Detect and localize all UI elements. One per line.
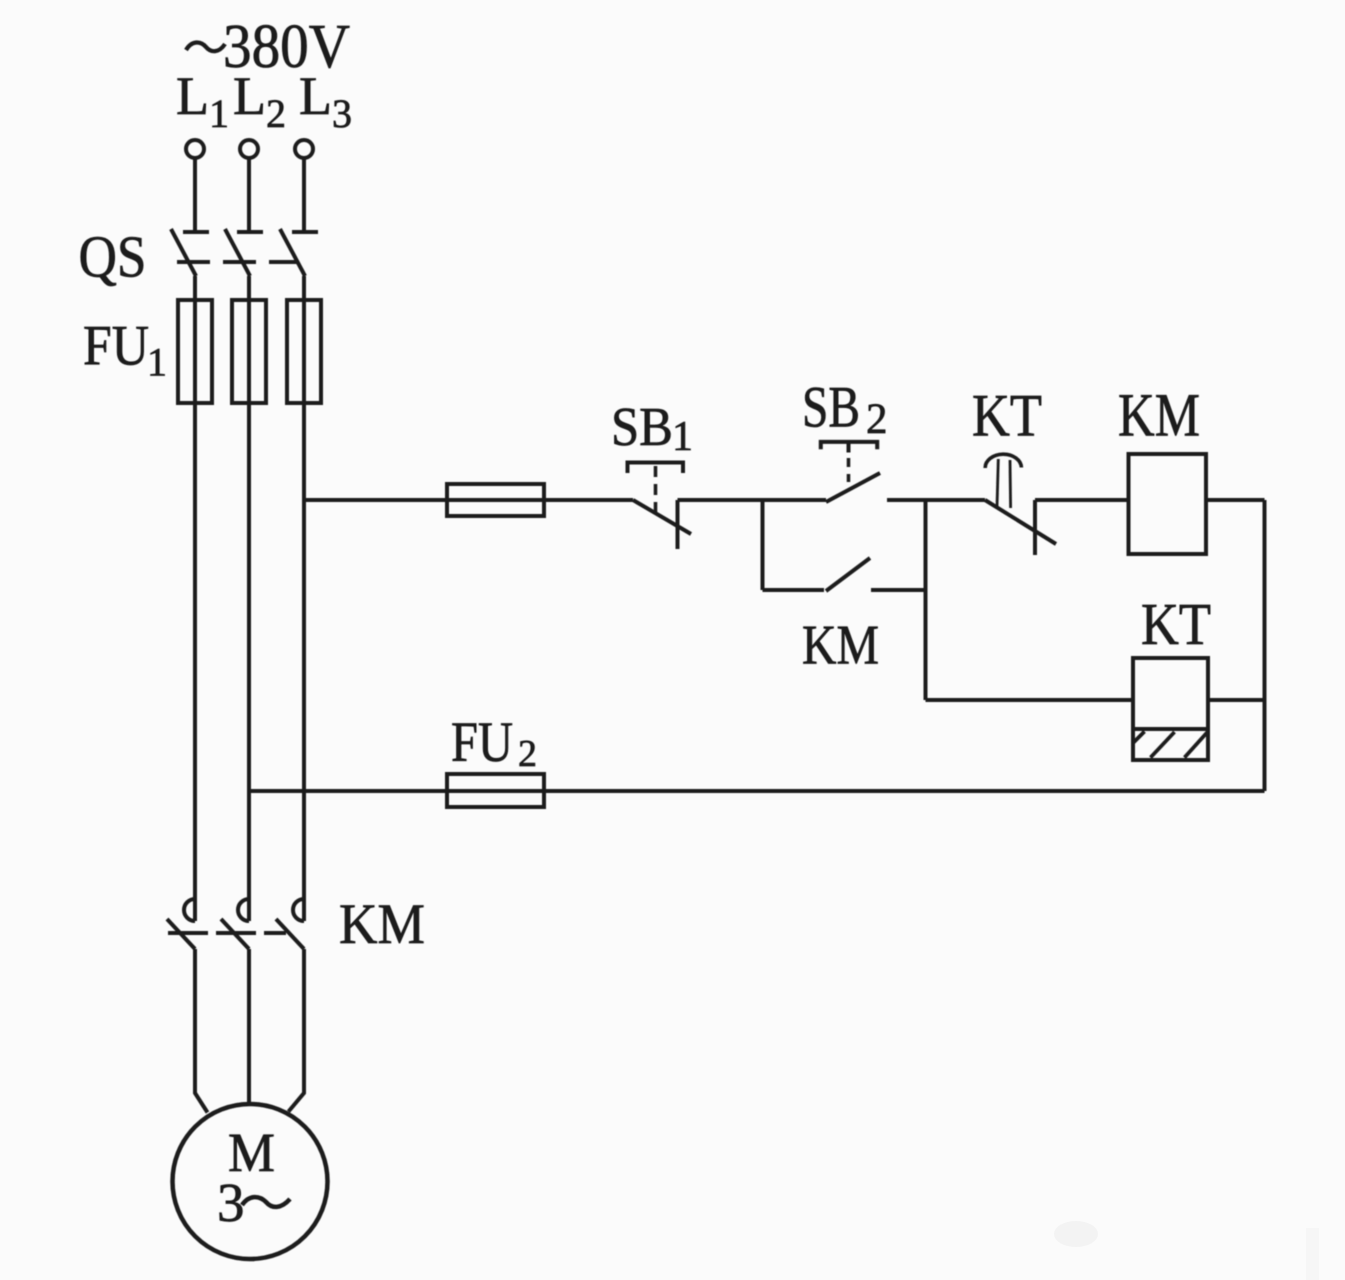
node ~380V supply label	[186, 42, 225, 51]
svg-text:SB: SB	[611, 396, 673, 457]
coil KT (time relay)	[1133, 658, 1208, 760]
contactor KM main contact pole 2	[221, 899, 249, 949]
contact KM latch	[763, 558, 926, 591]
svg-text:2: 2	[866, 396, 888, 443]
faint artifact smudge	[1054, 1221, 1098, 1247]
wire L3 drop	[302, 158, 306, 231]
wire motor lead 2	[247, 949, 251, 1105]
wire pole 1 vertical	[193, 276, 197, 921]
svg-text:KM: KM	[1118, 383, 1200, 450]
fuse FU2	[447, 774, 544, 807]
wire bottom rail	[249, 789, 1265, 793]
svg-text:FU: FU	[83, 315, 149, 378]
svg-text:2: 2	[518, 733, 537, 775]
switch QS pole 3	[280, 229, 318, 276]
contactor KM main linkage	[168, 931, 286, 935]
junction column B	[924, 500, 928, 700]
pushbutton SB2 (NO)	[821, 442, 880, 502]
wire right vertical	[1263, 500, 1267, 791]
svg-text:SB: SB	[802, 375, 860, 440]
pushbutton SB1 (NC)	[628, 463, 692, 550]
switch QS linkage	[177, 260, 298, 264]
fuse FU1 pole 3	[287, 300, 321, 403]
svg-text:QS: QS	[79, 224, 147, 290]
wire motor lead 3	[289, 949, 305, 1112]
switch QS pole 1	[171, 229, 209, 276]
terminal L3	[295, 140, 313, 158]
contactor KM main contact pole 3	[276, 899, 304, 949]
wire motor lead 1	[195, 949, 208, 1113]
terminal L2	[240, 140, 258, 158]
wire KT branch	[926, 698, 1265, 702]
svg-text:KM: KM	[339, 893, 425, 956]
svg-text:KM: KM	[802, 615, 879, 677]
wire control top rail	[304, 498, 1265, 502]
svg-text:KT: KT	[1141, 591, 1211, 657]
switch QS pole 2	[225, 229, 263, 276]
svg-text:1: 1	[147, 340, 167, 385]
svg-text:FU: FU	[451, 711, 513, 774]
wire pole 2 vertical	[247, 276, 251, 921]
contactor KM main contact pole 1	[167, 899, 195, 949]
fuse FU2a (top)	[447, 484, 544, 516]
wire L2 drop	[247, 158, 251, 231]
motor M circle	[173, 1104, 328, 1259]
relay contact KT (NC delayed)	[985, 454, 1056, 555]
terminal L1	[186, 140, 204, 158]
svg-text:3: 3	[217, 1172, 245, 1233]
svg-text:1: 1	[672, 414, 693, 460]
svg-text:KT: KT	[972, 383, 1042, 449]
fuse FU1 pole 2	[232, 300, 266, 403]
wire L1 drop	[193, 158, 197, 231]
coil KM	[1129, 454, 1207, 554]
junction column A	[761, 500, 765, 590]
wire pole 3 vertical	[302, 276, 306, 921]
fuse FU1 pole 1	[178, 300, 212, 403]
